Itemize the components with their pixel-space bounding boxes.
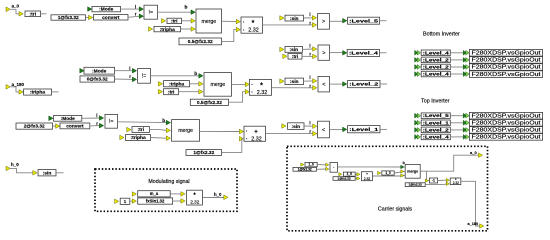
svg-text:1@fx3.32: 1@fx3.32 [58,15,79,21]
svg-text:merge: merge [201,19,216,25]
svg-text:F280XDSP.vsGpioOut: F280XDSP.vsGpioOut [472,128,542,134]
svg-text:*: * [260,82,263,89]
wire merge branch down to negate [427,171,430,180]
svg-text:l: l [309,12,310,17]
svg-text::tripha: :tripha [130,135,145,141]
svg-text:2@fx3.32: 2@fx3.32 [24,124,45,130]
svg-text:!=: != [149,10,153,16]
svg-text:l: l [96,113,97,118]
svg-text:F280XDSP.vsGpioOut: F280XDSP.vsGpioOut [472,135,542,141]
block F280XDSP.vsGpioOut (top row 2) [463,120,466,125]
multiply block *2.32 (row1) [236,19,240,24]
block convert (row3) [56,124,60,129]
svg-text::tripha: :tripha [30,90,45,96]
svg-text::Mode: :Mode [92,68,106,74]
dotted container Carrier signals [287,146,488,231]
wire tri to merge2 [179,91,199,93]
svg-text::Level_5: :Level_5 [349,18,378,24]
svg-text::Level_2: :Level_2 [349,82,378,88]
wire const to multiply2 in2 [229,92,246,103]
svg-text:2.32: 2.32 [257,90,268,96]
block F280XDSP.vsGpioOut (top row 1) [463,113,466,118]
svg-text::Level_4: :Level_4 [423,135,450,140]
svg-text:1_0: 1_0 [308,163,314,167]
wire tri stub [41,13,47,15]
svg-text:+: + [254,129,258,135]
block Level 1 variable [343,127,347,132]
multiply block *2.32 (carrier D) [446,179,449,182]
wire const to add3 in2 [222,139,245,153]
wire Level 2 to GpioOut [450,129,463,131]
wire Level 2 to GpioOut [450,59,463,61]
svg-text:2.32: 2.32 [251,136,262,142]
block tripha (variable write, row2) [19,90,23,95]
svg-text::tri: :tri [171,19,178,25]
block Level 2 read (top inverter row 3) [415,128,418,133]
wire h_0 to sin [10,168,33,172]
const 0@fx3.32 (row2) [80,76,115,82]
svg-text:merge: merge [407,170,418,174]
wire compare to Level 5 [330,20,343,22]
const 2@fx3.32 (row3) [16,123,53,129]
wire Level 4 to GpioOut [450,136,463,138]
svg-text::Level_1: :Level_1 [349,127,378,133]
svg-text::Level_2: :Level_2 [423,57,450,62]
block Level 1 read (top inverter row 2) [415,120,418,125]
wire negate to multiply D [438,179,447,181]
block Level 5 variable [343,18,347,23]
const 1@fx2.32 (carrier A) [293,167,316,171]
svg-text::sin: :sin [290,16,299,22]
block m_a gain [132,192,136,197]
block sin (variable write) [33,171,37,176]
svg-text:2.32: 2.32 [453,181,459,185]
wire sin to compare l [304,17,313,19]
svg-text:b: b [162,118,165,124]
wire merge out to a_0 and branch [420,155,478,171]
wire merge3 out [200,131,240,133]
svg-text:convert: convert [102,15,120,21]
wire compare to Level 4 [330,52,343,54]
svg-text:h_0: h_0 [11,162,19,167]
block 1 (phase source) [115,199,119,204]
wire fxSin to multiply [173,200,181,202]
wire tripha to merge3 [151,137,167,140]
block F280XDSP.vsGpioOut (bottom row 4) [463,72,466,77]
svg-text:merge: merge [210,82,225,88]
svg-text:a_0: a_0 [470,150,477,155]
block convert (row1) [89,15,93,20]
const 0.5@fx2.32 (row1) [179,38,222,45]
wire convert3 to compare r [90,125,100,127]
wire const2 to compare r [115,78,133,80]
svg-text:!=: != [142,74,146,80]
svg-text::sin: :sin [290,79,299,85]
wire tripha to merge2 [190,83,199,85]
svg-text:1@fx2.32: 1@fx2.32 [193,150,214,156]
svg-text:Bottom Inverter: Bottom Inverter [423,32,460,38]
block Level 4 read (top inverter row 4) [415,135,418,140]
block merge (row3) [166,120,170,125]
wire compare to merge b [158,11,192,13]
svg-text::tri: :tri [30,12,37,18]
svg-text::sin: :sin [289,47,298,53]
wire stack B to multiply B [355,173,357,175]
wire Level 2 to GpioOut [450,66,463,68]
wire compare3 to merge b [118,121,167,124]
block tri read (Level4 branch) [283,54,287,59]
svg-text::Mode: :Mode [61,116,75,122]
wire tripha to merge [181,28,192,30]
svg-text:*: * [252,20,255,27]
block sin read (row1 compare) [280,16,284,21]
wire Level 1 to GpioOut [450,122,463,124]
svg-text::sin: :sin [291,124,300,130]
block merge (row2) [199,74,203,79]
block P (carrier A op) [326,163,329,166]
add block +2.32 (row3) [239,129,243,134]
block negate (carrier) [425,179,428,182]
svg-text::tripha: :tripha [160,27,175,33]
block Level 4 variable [343,51,347,56]
svg-text:<: < [322,127,325,133]
block F280XDSP.vsGpioOut (bottom row 2) [463,58,466,63]
block sin read (row2 compare) [280,79,284,84]
svg-text:F280XDSP.vsGpioOut: F280XDSP.vsGpioOut [472,113,542,119]
wire convert to compare r [128,16,139,17]
wire multiply1 out to compare r [263,24,313,26]
svg-text::Level_4: :Level_4 [423,72,450,77]
const 1@fx2.32 (row3) [186,150,222,156]
wire Level 4 to GpioOut [450,52,463,54]
const 1@fx2.32 (carrier D) [405,183,425,187]
multiply block *2.32 (row2) [245,82,249,87]
svg-text::tri: :tri [168,89,175,95]
svg-text::Level_5: :Level_5 [423,113,450,118]
wire Mode to compare l [121,8,140,10]
wire merge2 out [232,83,246,85]
svg-text:F280XDSP.vsGpioOut: F280XDSP.vsGpioOut [472,51,542,57]
svg-text:<: < [322,82,325,88]
wire merge1 out [222,20,237,22]
wire Mode2 to compare l [115,70,133,72]
dotted container Modulating signal [95,169,237,211]
svg-text:l: l [309,75,310,80]
block Mode (row1) [88,7,92,12]
svg-text::Level_2: :Level_2 [423,127,450,132]
svg-text::Level_4: :Level_4 [423,50,450,55]
wire P out to merge in1 [337,166,404,168]
block 1_0 read (carrier C) [378,171,381,174]
wire Mode3 to compare l [82,117,100,119]
wire multiply D to a_180 out [461,181,480,226]
block tripha read (row2 merge in2) [158,82,162,87]
wire compare to Level 2 [330,83,343,85]
wire sin stub [56,172,64,174]
multiply block *2.32 (modulating) [181,192,185,197]
block F280XDSP.vsGpioOut (bottom row 1) [463,50,466,55]
wire multiply2 out to compare r [272,87,313,89]
svg-text:!=: != [109,119,113,125]
wire Level 5 to GpioOut [450,115,463,117]
svg-text:a_0: a_0 [12,4,20,9]
wire tri to compare r [302,55,313,57]
svg-text:b: b [185,4,188,10]
wire Level2 stub [380,83,387,85]
svg-text:1@fx2.32: 1@fx2.32 [338,177,351,181]
multiply block *2.32 (carrier B) [357,173,360,176]
block tripha read (row1 merge in3) [149,27,153,32]
wire Level 4 to GpioOut [450,73,463,75]
block tri read (row1 merge in2) [162,19,166,24]
wire m_a to multiply [170,193,181,195]
svg-text:-1: -1 [432,179,435,183]
wire stack A to block P [317,164,326,166]
block ramp 1_0 (carrier B) [339,173,342,176]
svg-text:F280XDSP.vsGpioOut: F280XDSP.vsGpioOut [472,121,542,127]
const 1@fx3.32 [51,15,86,20]
svg-text:1@fx2.32: 1@fx2.32 [298,167,312,171]
svg-text:>: > [322,19,325,25]
svg-text:1@fx2.32: 1@fx2.32 [409,183,422,187]
block ramp 1_0 (carrier A) [301,163,304,166]
svg-text::Level_4: :Level_4 [349,51,378,57]
wire Level5 stub [380,20,387,22]
block F280XDSP.vsGpioOut (bottom row 3) [463,65,466,70]
wire C to merge in2 [394,171,405,173]
svg-text:a_180: a_180 [468,222,479,226]
block Level 2 read (bottom inverter row 2) [415,58,418,63]
wire const to convert [86,17,89,19]
wire tri to merge [182,20,192,22]
block Level 2 variable [343,82,347,87]
svg-text:2.32: 2.32 [364,177,371,181]
svg-text:l: l [129,66,130,71]
block tri read (row3 merge in2) [127,127,131,132]
wire Level1 stub [380,128,387,130]
block Mode (row3) [49,116,53,121]
wire tripha stub [52,91,59,93]
svg-text:>: > [322,51,325,57]
block F280XDSP.vsGpioOut (top row 3) [463,128,466,133]
svg-text:0.5@fx2.32: 0.5@fx2.32 [188,39,213,45]
block sin read (Level4 branch) [280,47,284,52]
svg-text:2.32: 2.32 [248,28,259,34]
wire compare2 to merge b [151,75,199,77]
wire Level4 stub [380,52,387,54]
wire a_180 to tripha [10,87,19,92]
svg-text:Carrier signals: Carrier signals [378,207,412,213]
block Level 4 read (bottom inverter row 4) [415,72,418,77]
wire multiply to h_0 out [202,197,223,199]
svg-text:a_180: a_180 [12,82,25,87]
svg-text:F280XDSP.vsGpioOut: F280XDSP.vsGpioOut [472,72,542,78]
svg-text:Top Inverter: Top Inverter [421,99,450,105]
const 0.5@fx2.32 (row2) [190,99,228,105]
svg-text:fxSin1.32: fxSin1.32 [146,199,165,204]
svg-text::tri: :tri [292,54,299,60]
svg-text:Modulating signal: Modulating signal [148,179,189,185]
block sin read (row3 compare) [282,124,286,129]
svg-text:2.32: 2.32 [190,199,199,204]
svg-text:l: l [309,44,310,49]
block tripha read (row3 merge in3) [120,135,124,140]
svg-text::tri: :tri [138,127,145,133]
wire tri to merge3 [150,129,167,132]
svg-text::Mode: :Mode [99,7,113,13]
svg-text:m_a: m_a [150,191,159,196]
block Level 2 read (bottom inverter row 3) [415,65,418,70]
wire a_0 to tri [10,9,19,14]
svg-text:1_0: 1_0 [385,171,391,175]
svg-text:convert: convert [66,124,84,130]
wire 1 to fxSin [130,200,132,202]
wire sin to compare3 l [304,125,313,127]
svg-text:l: l [309,121,310,126]
block F280XDSP.vsGpioOut (top row 4) [463,135,466,140]
block fxSin1.32 [132,199,136,204]
svg-text::Level_2: :Level_2 [423,65,450,70]
wire sin to compare2 l [304,80,313,82]
svg-text::sin: :sin [43,170,52,176]
block Mode (row2) [80,68,84,73]
svg-text::Level_1: :Level_1 [423,120,450,125]
wire compare to Level 1 [330,129,343,131]
svg-text:0.5@fx2.32: 0.5@fx2.32 [197,100,222,106]
block tri read (row2 merge in3) [158,89,162,94]
svg-text:b: b [194,71,197,77]
wire const D to multiply D [425,183,446,186]
svg-text:l: l [135,4,136,9]
block tri (variable write, row1) [19,12,23,17]
wire const to convert3 [53,125,56,127]
wire const to multiply in2 [222,30,237,42]
block merge (row1) [191,10,195,15]
const @fx2.32 (carrier B) [333,177,355,181]
wire add3 out to compare r [266,133,313,135]
svg-text:F280XDSP.vsGpioOut: F280XDSP.vsGpioOut [472,65,542,71]
svg-text:F280XDSP.vsGpioOut: F280XDSP.vsGpioOut [472,58,542,64]
block Level 4 read (bottom inverter row 1) [415,50,418,55]
svg-text:h_0: h_0 [214,192,222,197]
svg-text:0@fx3.32: 0@fx3.32 [87,77,108,83]
wire sin to compare l [303,48,313,50]
wire multiply B to merge in3 [372,175,404,178]
svg-text::tripha: :tripha [169,81,184,87]
block Level 5 read (top inverter row 1) [415,113,418,118]
svg-text:merge: merge [178,128,193,134]
